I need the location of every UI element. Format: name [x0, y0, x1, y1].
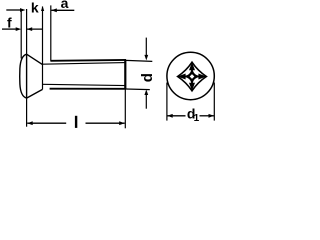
l right extension line [124, 89, 126, 128]
head cone bottom edge [27, 89, 43, 98]
thread runout up-arrow [41, 6, 44, 11]
d top extension line [126, 60, 152, 61]
d dim line lower [145, 95, 147, 109]
cross recess inner diamond [184, 68, 201, 85]
svg-text:1: 1 [194, 113, 200, 124]
cross recess tip right [198, 74, 206, 80]
l arrow left [27, 121, 33, 125]
d1 right extension line [213, 83, 215, 121]
d1 dim line left [167, 115, 185, 117]
d1 arrow left [167, 114, 173, 118]
screw head dome arc [20, 54, 27, 98]
thread runout extension line [42, 7, 44, 90]
l arrow right [119, 121, 125, 125]
thread major top line [50, 59, 126, 62]
l dim line right [86, 122, 125, 124]
dimension a line [51, 9, 74, 11]
d bottom extension line [126, 88, 150, 91]
d1 dim line right [200, 115, 215, 117]
dimension k line [6, 9, 20, 11]
thread core top line [43, 63, 127, 65]
svg-text:k: k [31, 0, 39, 16]
svg-text:d: d [139, 73, 156, 82]
extension line head edge [26, 9, 28, 54]
d arrow down [144, 55, 148, 61]
d1 arrow right [209, 114, 215, 118]
thread core bottom line [43, 84, 127, 85]
head cone top edge [27, 54, 43, 64]
dimension k arrow [20, 8, 26, 12]
dimension f line right [27, 28, 43, 30]
l left extension line [26, 98, 28, 127]
extension line thread start [50, 5, 52, 60]
cross recess outer outline [178, 62, 207, 91]
svg-text:a: a [61, 0, 69, 11]
dimension f line left [2, 28, 17, 30]
cross recess tip bottom [189, 83, 195, 91]
d1 left extension line [166, 83, 168, 121]
thread major bottom line [50, 88, 126, 90]
l dim line left [27, 122, 66, 124]
d arrow up [144, 90, 148, 96]
screw head edge line [26, 54, 28, 98]
svg-text:f: f [7, 15, 12, 31]
d dim line upper [145, 38, 147, 56]
head end view circle [167, 52, 214, 99]
dimension a arrow [51, 8, 57, 12]
l label [75, 116, 77, 128]
dimension f arrow right [27, 27, 33, 31]
dimension f arrow left [16, 27, 22, 31]
cross recess tip left [178, 74, 186, 80]
cross recess tip top [189, 62, 195, 70]
extension line head apex [20, 11, 22, 59]
shaft end line [124, 60, 126, 90]
